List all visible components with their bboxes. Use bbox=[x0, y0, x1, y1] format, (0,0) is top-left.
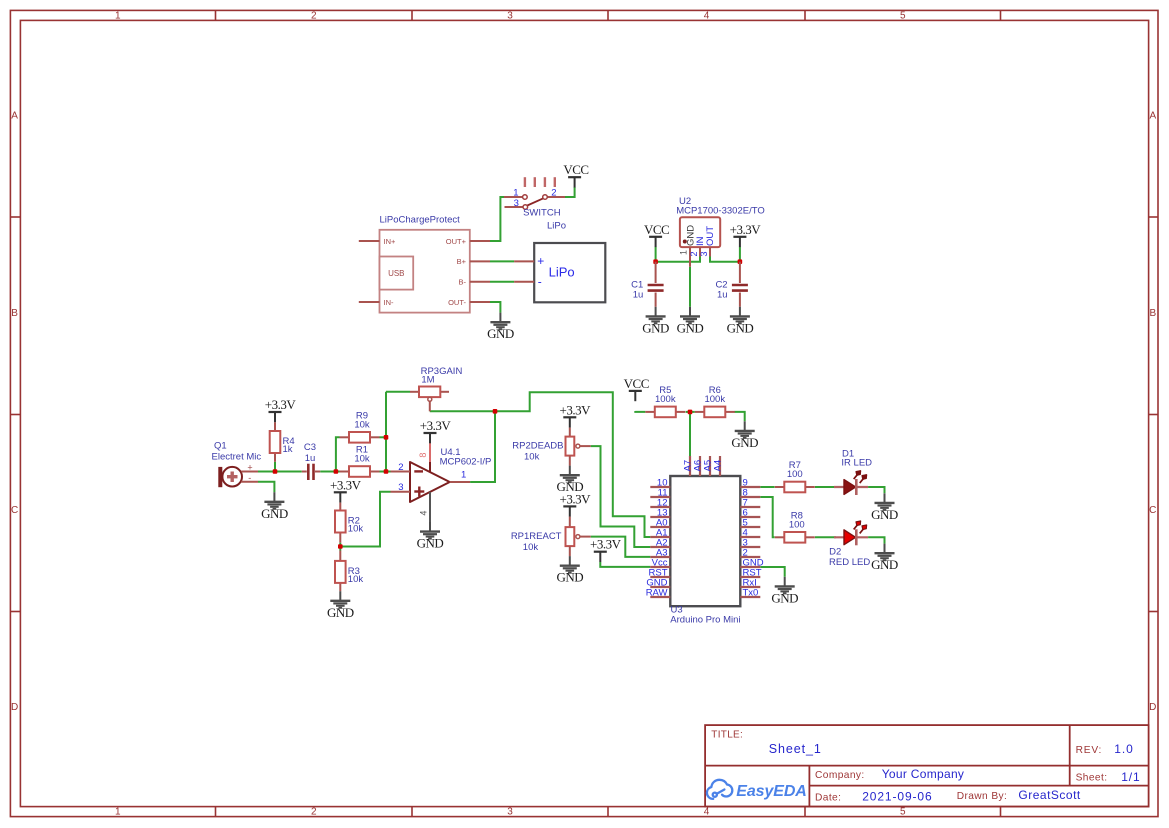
svg-text:A4: A4 bbox=[713, 460, 724, 472]
svg-text:10k: 10k bbox=[348, 523, 364, 534]
svg-text:B+: B+ bbox=[457, 257, 467, 266]
svg-text:+3.3V: +3.3V bbox=[590, 537, 622, 552]
svg-text:3: 3 bbox=[398, 482, 403, 493]
svg-text:2: 2 bbox=[311, 807, 317, 818]
svg-text:1: 1 bbox=[115, 10, 121, 21]
svg-text:2021-09-06: 2021-09-06 bbox=[862, 789, 932, 803]
svg-text:100k: 100k bbox=[655, 394, 676, 405]
svg-text:3: 3 bbox=[507, 10, 513, 21]
svg-text:5: 5 bbox=[900, 10, 906, 21]
svg-text:REV:: REV: bbox=[1076, 745, 1103, 756]
svg-text:2: 2 bbox=[689, 251, 699, 256]
svg-text:GND: GND bbox=[487, 326, 514, 341]
svg-text:GND: GND bbox=[731, 435, 758, 450]
svg-text:1: 1 bbox=[513, 187, 518, 198]
svg-text:VCC: VCC bbox=[624, 376, 649, 391]
svg-text:GND: GND bbox=[417, 536, 444, 551]
svg-text:10k: 10k bbox=[354, 454, 370, 465]
svg-text:EasyEDA: EasyEDA bbox=[736, 783, 806, 800]
svg-text:D: D bbox=[1149, 702, 1156, 713]
svg-text:Electret Mic: Electret Mic bbox=[212, 451, 262, 462]
svg-text:+3.3V: +3.3V bbox=[330, 477, 362, 492]
svg-text:GND: GND bbox=[871, 557, 898, 572]
svg-text:+3.3V: +3.3V bbox=[730, 222, 762, 237]
svg-text:1.0: 1.0 bbox=[1114, 742, 1133, 756]
svg-text:MCP1700-3302E/TO: MCP1700-3302E/TO bbox=[676, 205, 765, 216]
svg-text:+3.3V: +3.3V bbox=[420, 418, 452, 433]
svg-text:VCC: VCC bbox=[563, 162, 588, 177]
svg-text:2: 2 bbox=[311, 10, 317, 21]
svg-text:4: 4 bbox=[704, 10, 710, 21]
svg-text:MCP602-I/P: MCP602-I/P bbox=[440, 457, 492, 468]
svg-text:Sheet_1: Sheet_1 bbox=[769, 742, 822, 756]
svg-text:Sheet:: Sheet: bbox=[1076, 772, 1108, 783]
svg-text:RAW: RAW bbox=[646, 588, 668, 599]
svg-text:Date:: Date: bbox=[815, 792, 841, 803]
svg-text:OUT-: OUT- bbox=[448, 298, 466, 307]
svg-text:+: + bbox=[247, 462, 252, 472]
svg-text:+3.3V: +3.3V bbox=[265, 397, 297, 412]
svg-text:1/1: 1/1 bbox=[1121, 770, 1140, 784]
svg-text:GreatScott: GreatScott bbox=[1018, 788, 1081, 802]
svg-text:Tx0: Tx0 bbox=[743, 588, 759, 599]
svg-text:C3: C3 bbox=[304, 442, 316, 453]
svg-text:RP1REACT: RP1REACT bbox=[511, 531, 562, 542]
svg-text:GND: GND bbox=[327, 605, 354, 620]
svg-text:10k: 10k bbox=[354, 419, 370, 430]
svg-text:2: 2 bbox=[398, 462, 403, 473]
svg-text:OUT+: OUT+ bbox=[446, 237, 467, 246]
svg-text:GND: GND bbox=[261, 506, 288, 521]
svg-text:3: 3 bbox=[514, 198, 519, 209]
svg-text:3: 3 bbox=[699, 251, 709, 256]
svg-text:GND: GND bbox=[556, 570, 583, 585]
svg-text:1u: 1u bbox=[633, 290, 644, 301]
svg-text:D: D bbox=[11, 702, 18, 713]
svg-text:1k: 1k bbox=[283, 444, 293, 455]
svg-text:-: - bbox=[248, 473, 251, 483]
svg-text:2: 2 bbox=[551, 187, 556, 198]
svg-text:GND: GND bbox=[727, 320, 754, 335]
svg-text:LiPo: LiPo bbox=[547, 221, 566, 232]
svg-text:+: + bbox=[537, 254, 544, 268]
svg-text:A: A bbox=[11, 111, 18, 122]
svg-text:SWITCH: SWITCH bbox=[523, 208, 561, 219]
svg-text:OUT: OUT bbox=[705, 226, 716, 246]
svg-text:8: 8 bbox=[418, 453, 428, 458]
svg-text:RP2DEADB: RP2DEADB bbox=[512, 441, 563, 452]
svg-text:+3.3V: +3.3V bbox=[560, 491, 592, 506]
svg-text:Your Company: Your Company bbox=[882, 767, 965, 781]
svg-text:C: C bbox=[1149, 505, 1156, 516]
svg-text:10k: 10k bbox=[524, 451, 540, 462]
svg-text:C: C bbox=[11, 505, 18, 516]
svg-text:1: 1 bbox=[461, 470, 466, 481]
svg-text:GND: GND bbox=[642, 320, 669, 335]
svg-text:GND: GND bbox=[771, 590, 798, 605]
svg-text:1u: 1u bbox=[717, 290, 728, 301]
svg-text:10k: 10k bbox=[523, 542, 539, 553]
svg-text:GND: GND bbox=[871, 507, 898, 522]
svg-text:B: B bbox=[1149, 308, 1156, 319]
svg-text:LiPo: LiPo bbox=[549, 264, 575, 279]
svg-text:A: A bbox=[1149, 111, 1156, 122]
svg-text:IN-: IN- bbox=[384, 298, 395, 307]
svg-text:5: 5 bbox=[900, 807, 906, 818]
svg-text:100k: 100k bbox=[704, 394, 725, 405]
svg-text:GND: GND bbox=[677, 320, 704, 335]
svg-text:4: 4 bbox=[418, 511, 428, 516]
svg-text:1: 1 bbox=[115, 807, 121, 818]
svg-text:100: 100 bbox=[789, 519, 805, 530]
svg-text:+3.3V: +3.3V bbox=[560, 402, 592, 417]
svg-text:1M: 1M bbox=[421, 374, 434, 385]
svg-text:1: 1 bbox=[679, 250, 689, 255]
svg-text:4: 4 bbox=[704, 807, 710, 818]
svg-text:Q1: Q1 bbox=[214, 441, 227, 452]
svg-text:VCC: VCC bbox=[644, 222, 669, 237]
svg-text:IR LED: IR LED bbox=[841, 457, 872, 468]
svg-text:Arduino Pro Mini: Arduino Pro Mini bbox=[670, 614, 740, 625]
svg-text:B: B bbox=[11, 308, 18, 319]
svg-text:USB: USB bbox=[388, 269, 404, 278]
svg-text:D2: D2 bbox=[829, 547, 841, 558]
svg-text:B-: B- bbox=[459, 278, 467, 287]
svg-text:10k: 10k bbox=[348, 574, 364, 585]
svg-text:Drawn By:: Drawn By: bbox=[957, 791, 1008, 802]
svg-text:3: 3 bbox=[507, 807, 513, 818]
svg-text:Company:: Company: bbox=[815, 770, 865, 781]
svg-text:100: 100 bbox=[787, 469, 803, 480]
svg-text:TITLE:: TITLE: bbox=[711, 730, 743, 741]
svg-text:-: - bbox=[538, 275, 542, 289]
svg-text:IN+: IN+ bbox=[384, 237, 397, 246]
svg-text:LiPoChargeProtect: LiPoChargeProtect bbox=[380, 215, 461, 226]
svg-text:1u: 1u bbox=[305, 453, 316, 464]
svg-text:RED LED: RED LED bbox=[829, 557, 870, 568]
